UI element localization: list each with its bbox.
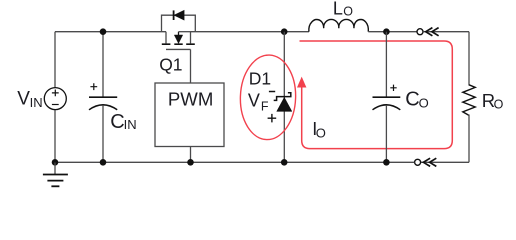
svg-text:O: O [316,126,326,141]
svg-text:PWM: PWM [168,89,213,110]
PWM block [155,83,224,147]
wire top rail right segment [368,31,417,33]
terminal bottom [415,159,421,165]
node bottom D1 [281,159,288,166]
red arrowhead IO [297,77,306,88]
svg-text:O: O [343,5,353,19]
capacitor CIN [102,32,104,98]
drain stub [190,32,192,44]
diode D1 (Schottky) [274,93,292,112]
transistor Q1 (MOSFET with body diode) [162,32,195,83]
svg-text:IN: IN [30,95,43,110]
svg-text:IN: IN [124,117,137,132]
top double arrowheads [426,28,439,36]
minus sign at D1 cathode [269,91,275,93]
bottom double arrowheads [423,158,436,166]
wire top rail left segment [55,31,166,33]
wire PWM to ground rail [190,147,192,163]
gate wire to PWM [190,49,192,83]
svg-text:V: V [17,89,30,110]
svg-text:F: F [261,100,269,114]
wire top terminal to right rail [423,31,469,33]
svg-text:C: C [110,111,124,133]
node top D1 [281,28,288,35]
node bottom CIN [100,159,107,166]
ground [43,163,68,187]
wire top rail mid segment [191,31,309,33]
capacitor CO [385,32,387,98]
channel bars [162,43,195,45]
node bottom CO [383,159,390,166]
red current loop IO [300,41,453,149]
right rail upper [468,32,470,86]
body arrow [178,32,180,36]
gate plate [166,48,191,50]
svg-text:Q1: Q1 [159,55,182,75]
resistor RO [463,85,475,116]
svg-text:C: C [405,88,419,110]
terminal top [417,29,423,35]
right rail lower [468,115,470,163]
source VIN [44,88,66,110]
node bottom PWM [187,159,194,166]
wire bottom rail [55,161,414,163]
wire left rail [54,32,56,88]
node bottom VIN [52,159,59,166]
red ellipse around D1 [239,54,297,140]
svg-text:L: L [333,0,343,19]
svg-text:O: O [419,96,429,111]
plus sign at D1 anode [268,114,277,123]
source stub [165,32,167,44]
body diode of Q1 [162,10,196,31]
svg-text:D1: D1 [249,68,271,88]
node top CIN [100,28,107,35]
diode D1 branch wire [283,32,285,163]
svg-text:V: V [248,90,260,110]
inductor LO [309,19,369,31]
wire bottom right to terminal [421,161,469,163]
node top CO [383,28,390,35]
svg-text:O: O [494,98,504,112]
